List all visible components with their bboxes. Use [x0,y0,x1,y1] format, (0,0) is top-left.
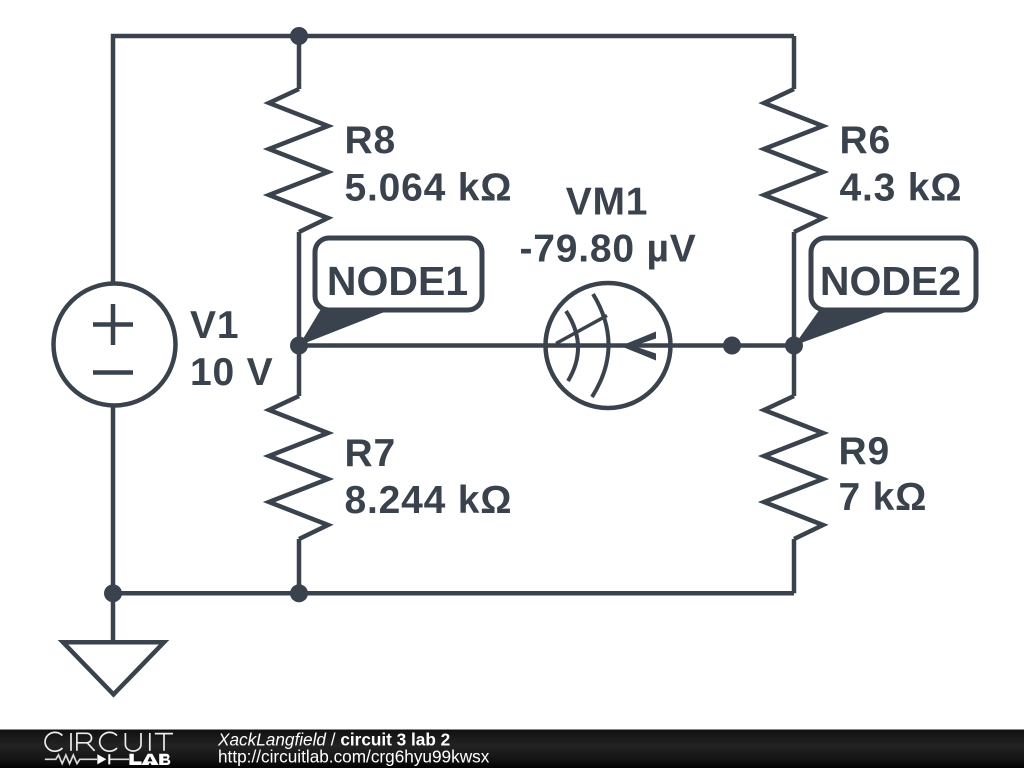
wire middle rail NODE1 to NODE2 [299,343,794,348]
svg-text:http://circuitlab.com/crg6hyu9: http://circuitlab.com/crg6hyu99kwsx [218,747,490,767]
wire V1 bottom to ground rail [111,405,116,593]
node NODE2 junction dot [785,337,803,355]
resistor R8 [269,89,328,232]
node A junction dot top [290,27,308,45]
svg-text:7 kΩ: 7 kΩ [839,476,928,519]
wire R8 top lead [297,36,302,89]
svg-text:R7: R7 [345,432,396,475]
CircuitLab logo wordmark CIRCUIT (vector letters) [45,732,173,751]
NODE2 flag [794,238,976,346]
resistor R9 [764,396,823,539]
voltage source V1 [54,284,176,406]
svg-text:NODE1: NODE1 [327,258,468,304]
svg-text:NODE2: NODE2 [820,258,961,304]
svg-text:8.244 kΩ: 8.244 kΩ [345,479,513,522]
wire R7 bottom lead [297,539,302,593]
resistor R7 [269,396,328,539]
wire R6 top lead [792,36,797,89]
svg-text:5.064 kΩ: 5.064 kΩ [345,167,513,210]
svg-text:VM1: VM1 [566,181,649,224]
svg-text:R9: R9 [839,430,890,473]
CircuitLab logo squiggle (resistor + diode) [45,755,129,764]
voltmeter VM1 [546,283,671,408]
CircuitLab logo LAB (vector letters) [129,754,170,765]
wire R6 bottom lead [792,232,797,346]
svg-text:-79.80 µV: -79.80 µV [519,228,696,271]
wire bottom rail [113,591,794,596]
footer attribution line [217,730,490,767]
node voltmeter junction dot [723,337,741,355]
svg-text:V1: V1 [190,304,239,347]
node ground-left junction dot [104,584,122,602]
wire R9 top lead [792,346,797,397]
svg-text:R8: R8 [345,119,396,162]
wire R9 bottom lead [792,539,797,593]
svg-text:4.3 kΩ: 4.3 kΩ [840,167,963,210]
wire R7 top lead [297,346,302,397]
node NODE1 junction dot [290,337,308,355]
svg-text:R6: R6 [840,119,891,162]
node ground-mid junction dot [290,584,308,602]
wire top rail [113,36,794,284]
ground [63,642,164,694]
voltmeter arrow [621,332,657,361]
NODE1 flag [299,238,482,346]
svg-text:10 V: 10 V [190,351,273,394]
resistor R6 [764,89,823,232]
wire R8 bottom lead [297,232,302,346]
wire ground stem [111,593,116,642]
